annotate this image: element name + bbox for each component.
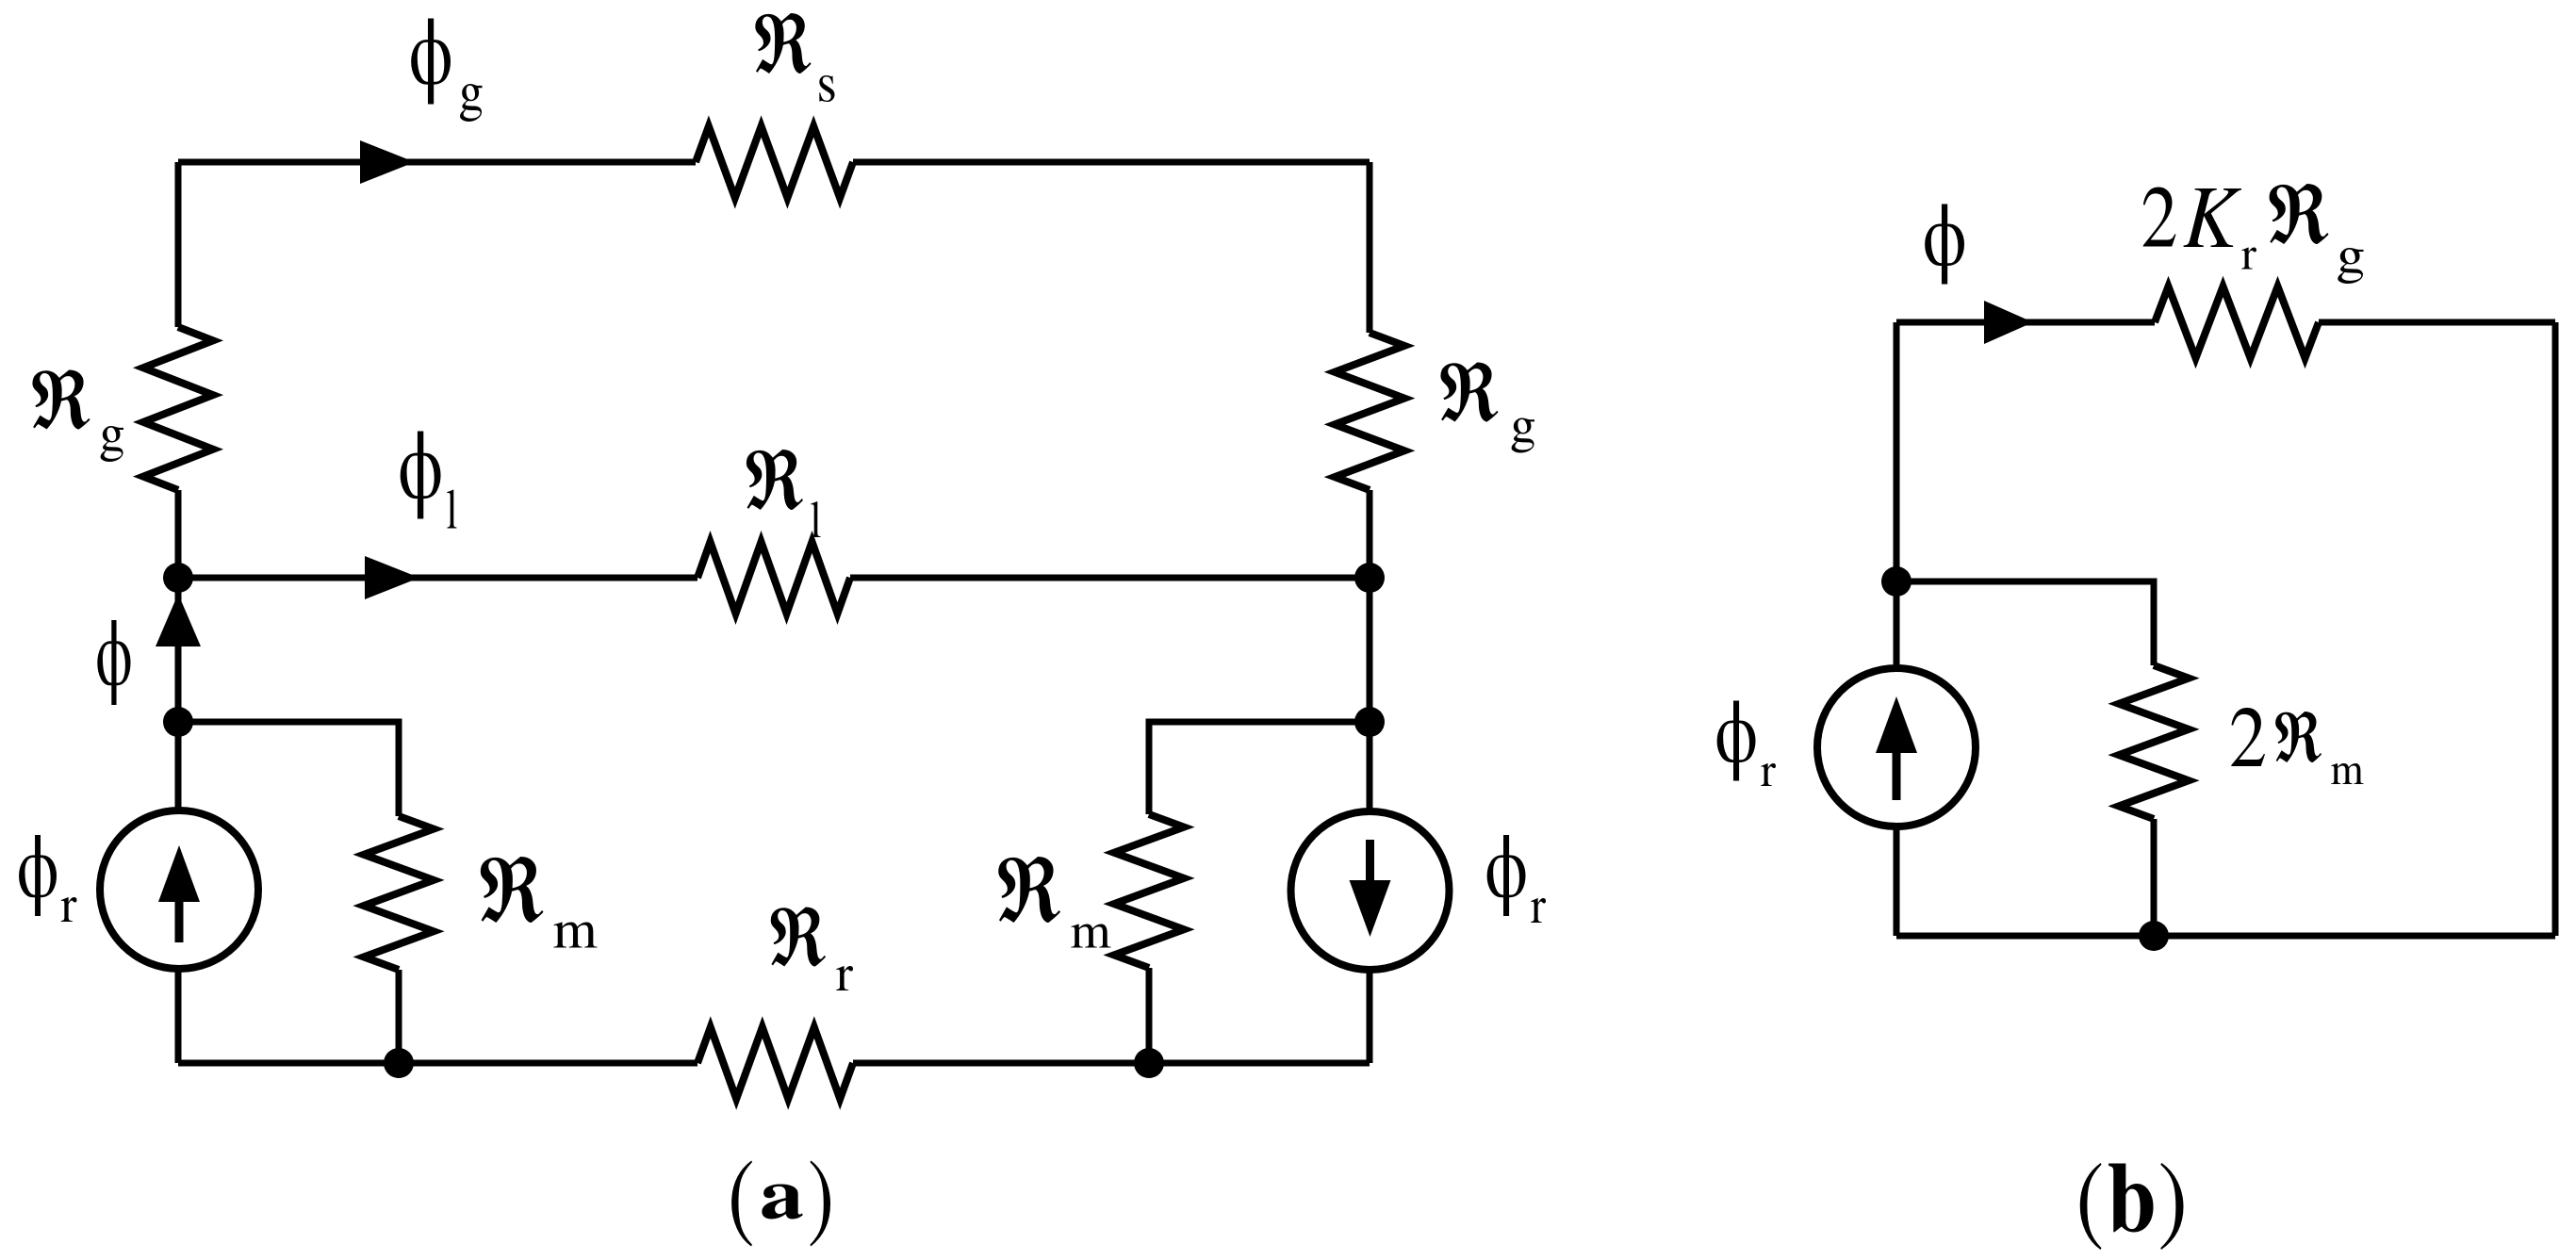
label 2KrRg [2143,188,2176,247]
label phi (left vertical) [97,620,130,705]
flux source phi_r (left): circle [100,810,258,969]
flow arrow phi_g on top wire [360,140,415,184]
caption (a) [731,1160,752,1246]
wire: panel (a) right vertical [1367,162,1373,1063]
wire: panel (a) left vertical lower [175,578,182,1063]
resistor Rs (top) [696,126,853,198]
node D: right branch junction [1354,707,1385,737]
label Rm (right) [998,857,1060,923]
label 2Rm [2231,708,2265,766]
resistor Rg (left) [143,327,213,490]
wire: left Rm branch [178,722,399,1063]
resistor 2KrRg (b top) [2155,286,2319,358]
wire: panel (a) bottom horizontal [178,1060,1370,1067]
flux source phi_r (right): down arrow [1350,880,1391,937]
wire: panel (b) left vertical [1894,322,1900,936]
flux source phi_r (b): up arrow [1876,696,1917,753]
node A: left middle junction [163,563,193,593]
flux source phi_r (b): circle [1817,668,1976,826]
wire: panel (a) middle horizontal [178,575,1370,581]
label Rl [747,450,803,510]
node: bottom left Rm junction [384,1048,414,1078]
label phi_l [401,432,441,519]
wire: panel (b) top horizontal [1896,319,2555,326]
resistor Rm (right) [1114,814,1184,968]
label Rm (left) [481,857,544,923]
wire: panel (a) left vertical upper [175,162,182,578]
wire: right Rm branch [1149,722,1370,1063]
resistor Rm (left) [364,816,434,970]
label phi (b top) [1925,204,1964,284]
node E: (b) left junction [1881,566,1911,597]
label Rg (right) [1440,362,1498,421]
label Rr [771,907,826,966]
label phi_g [411,19,451,105]
node B: left branch junction [163,707,193,737]
label Rs [755,13,811,74]
resistor Rr (bottom) [697,1027,853,1099]
caption (b) [2080,1163,2102,1250]
resistor Rg (right) [1335,333,1404,490]
label phi_r (left) [19,835,57,916]
wire: (b) 2Rm branch [1896,581,2154,936]
label phi_r (b) [1717,700,1756,780]
wire: panel (b) right vertical [2552,322,2559,936]
node: (b) bottom junction [2139,921,2169,951]
resistor 2Rm (b) [2119,665,2189,819]
label phi_r (right) [1487,835,1526,916]
flux source phi_r (right): circle [1291,811,1450,970]
wire: panel (b) bottom horizontal [1896,933,2555,940]
flow arrow phi on (b) top wire [1984,301,2033,344]
label Rg (left) [32,369,90,429]
flow arrow phi_l on middle wire [365,556,419,599]
flow arrow phi on left vertical [156,594,201,646]
resistor Rl (middle) [697,542,850,614]
wire: panel (a) top horizontal [178,159,1370,166]
node: bottom right Rm junction [1134,1048,1164,1078]
node C: right middle junction [1354,563,1385,593]
flux source phi_r (left): up arrow [158,845,200,902]
